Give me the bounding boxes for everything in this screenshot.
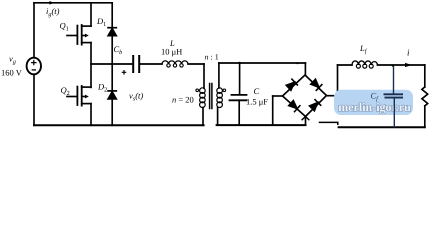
wire bridge right riser [337,65,339,96]
svg-text:D1: D1 [96,16,106,28]
svg-text:1.5 μF: 1.5 μF [246,97,268,107]
svg-text:Q2: Q2 [61,85,70,97]
wire Q-branch drain upper [90,3,92,26]
wire D-branch vertical [111,3,113,126]
wire load bottom lead [424,106,426,127]
transformer dot primary [196,89,199,92]
wire bridge left drop [272,96,274,125]
svg-text:ig(t): ig(t) [46,6,60,18]
transformer dot secondary [223,89,226,92]
transformer core [210,84,212,109]
svg-text:160 V: 160 V [1,68,23,78]
wire Q-branch middle [90,43,92,88]
inductor Lf [352,61,377,68]
wire bridge right stub [327,95,338,97]
wire C top lead [239,63,241,94]
capacitor Cf [384,66,404,128]
svg-text:D2: D2 [97,81,107,93]
resistor R load [422,87,428,106]
diode D2 [108,91,116,99]
node Cf junction [392,64,394,66]
svg-text:i: i [407,47,410,57]
wire bottom rail left [34,124,204,126]
svg-text:n : 1: n : 1 [205,53,219,62]
wire output rail left [338,64,353,66]
wire output rail right [378,64,425,66]
svg-text:vs(t): vs(t) [129,90,143,102]
node bridge bottom X overshoot [302,117,309,120]
svg-text:10 μH: 10 μH [161,47,182,57]
source Vg [27,58,41,75]
wire bottom rail output [339,126,425,128]
arrow ig [49,1,54,4]
svg-text:Lf: Lf [359,43,368,55]
capacitor Cb [133,56,139,72]
transformer primary winding [200,88,206,108]
node C-top junction [238,62,240,64]
wire secondary top rail [219,62,306,64]
transistor Q2 [67,86,91,106]
wire bridge left stub [273,95,283,97]
svg-text:vg: vg [9,54,16,66]
source minus [32,69,36,71]
wire bottom segment A [320,122,338,124]
diode bridge diamond [283,75,327,117]
wire mid rail left [91,63,132,65]
svg-text:n = 20: n = 20 [172,95,194,105]
source plus [31,60,36,65]
transformer primary lead bottom [202,108,204,126]
transformer secondary lead bottom [217,108,219,126]
arrow i output [405,63,412,67]
wire mid rail to transformer [188,63,204,65]
diode bridge UR [310,79,322,91]
svg-text:Q1: Q1 [60,20,69,32]
inductor L [162,61,188,67]
diode bridge UL [286,79,298,91]
wire Q-branch lower [90,104,92,126]
transformer secondary winding [217,88,223,108]
capacitor C [230,95,247,100]
wire bottom rail secondary [217,124,306,126]
svg-text:Cb: Cb [114,44,123,56]
wire mid rail to inductor [140,63,162,65]
transformer primary lead top [203,64,205,88]
wire top rail [34,2,112,4]
wire load top lead [424,65,426,87]
svg-text:C: C [254,86,260,96]
node top-rail tick [297,62,299,64]
wire bridge top lead [304,63,306,75]
wire C bottom lead [238,100,240,125]
transistor Q1 [67,25,91,45]
diode bridge LL [288,100,300,111]
svg-text:merlin-igor.ru: merlin-igor.ru [338,100,411,114]
diode D1 [108,28,116,36]
watermark box [334,90,413,115]
transformer secondary lead top [218,63,220,88]
wire left vertical lower [33,74,35,125]
wire left vertical upper [33,3,35,58]
wire bridge bottom lead [305,117,307,126]
label plus vs [122,70,127,75]
diode bridge LR [309,100,321,112]
